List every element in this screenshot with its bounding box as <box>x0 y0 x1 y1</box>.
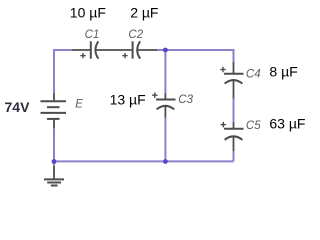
wire top-left segment (node A to C1) <box>53 49 73 51</box>
junction node bottom-middle (C3 / bottom rail) <box>163 159 168 164</box>
svg-text:2 µF: 2 µF <box>130 5 158 21</box>
battery E (74V source) <box>41 93 67 128</box>
wire middle branch lower (C3 to bottom node) <box>164 118 166 162</box>
svg-text:8 µF: 8 µF <box>269 64 297 80</box>
capacitor C1 (polarized, horizontal) <box>72 41 133 58</box>
svg-text:C1: C1 <box>85 29 100 41</box>
ground <box>44 166 64 186</box>
capacitor C4 (polarized, vertical right branch) <box>220 62 243 99</box>
svg-text:C3: C3 <box>178 94 193 106</box>
svg-text:10 µF: 10 µF <box>70 5 106 21</box>
wire middle branch upper (top node to C3) <box>164 50 166 94</box>
svg-text:C4: C4 <box>246 69 261 81</box>
svg-text:74V: 74V <box>5 99 31 115</box>
svg-text:C5: C5 <box>246 120 261 132</box>
capacitor C2 (polarized, horizontal) <box>122 41 157 58</box>
wire left branch lower (battery - terminal to bottom node) <box>53 128 55 162</box>
wire left branch upper (top corner down to battery + terminal) <box>53 49 55 94</box>
junction node bottom-left (battery / bottom rail / ground) <box>52 159 57 164</box>
junction node top (C2 / C3 / right branch) <box>163 48 168 53</box>
wire right branch middle (C4 to C5) <box>233 99 235 123</box>
wire top-right segment (C2 to right branch corner) <box>157 49 235 51</box>
svg-text:E: E <box>75 98 83 110</box>
wire ground stub <box>53 161 55 166</box>
svg-text:63 µF: 63 µF <box>269 116 305 132</box>
wire right branch lower (C5 to bottom corner) <box>233 151 235 161</box>
wire right branch upper (top corner to C4) <box>233 49 235 62</box>
svg-text:C2: C2 <box>128 29 143 41</box>
capacitor C3 (polarized, vertical middle branch) <box>152 93 175 118</box>
wire bottom rail <box>54 160 234 162</box>
svg-text:13 µF: 13 µF <box>110 92 146 108</box>
capacitor C5 (polarized, vertical right branch) <box>221 122 244 151</box>
